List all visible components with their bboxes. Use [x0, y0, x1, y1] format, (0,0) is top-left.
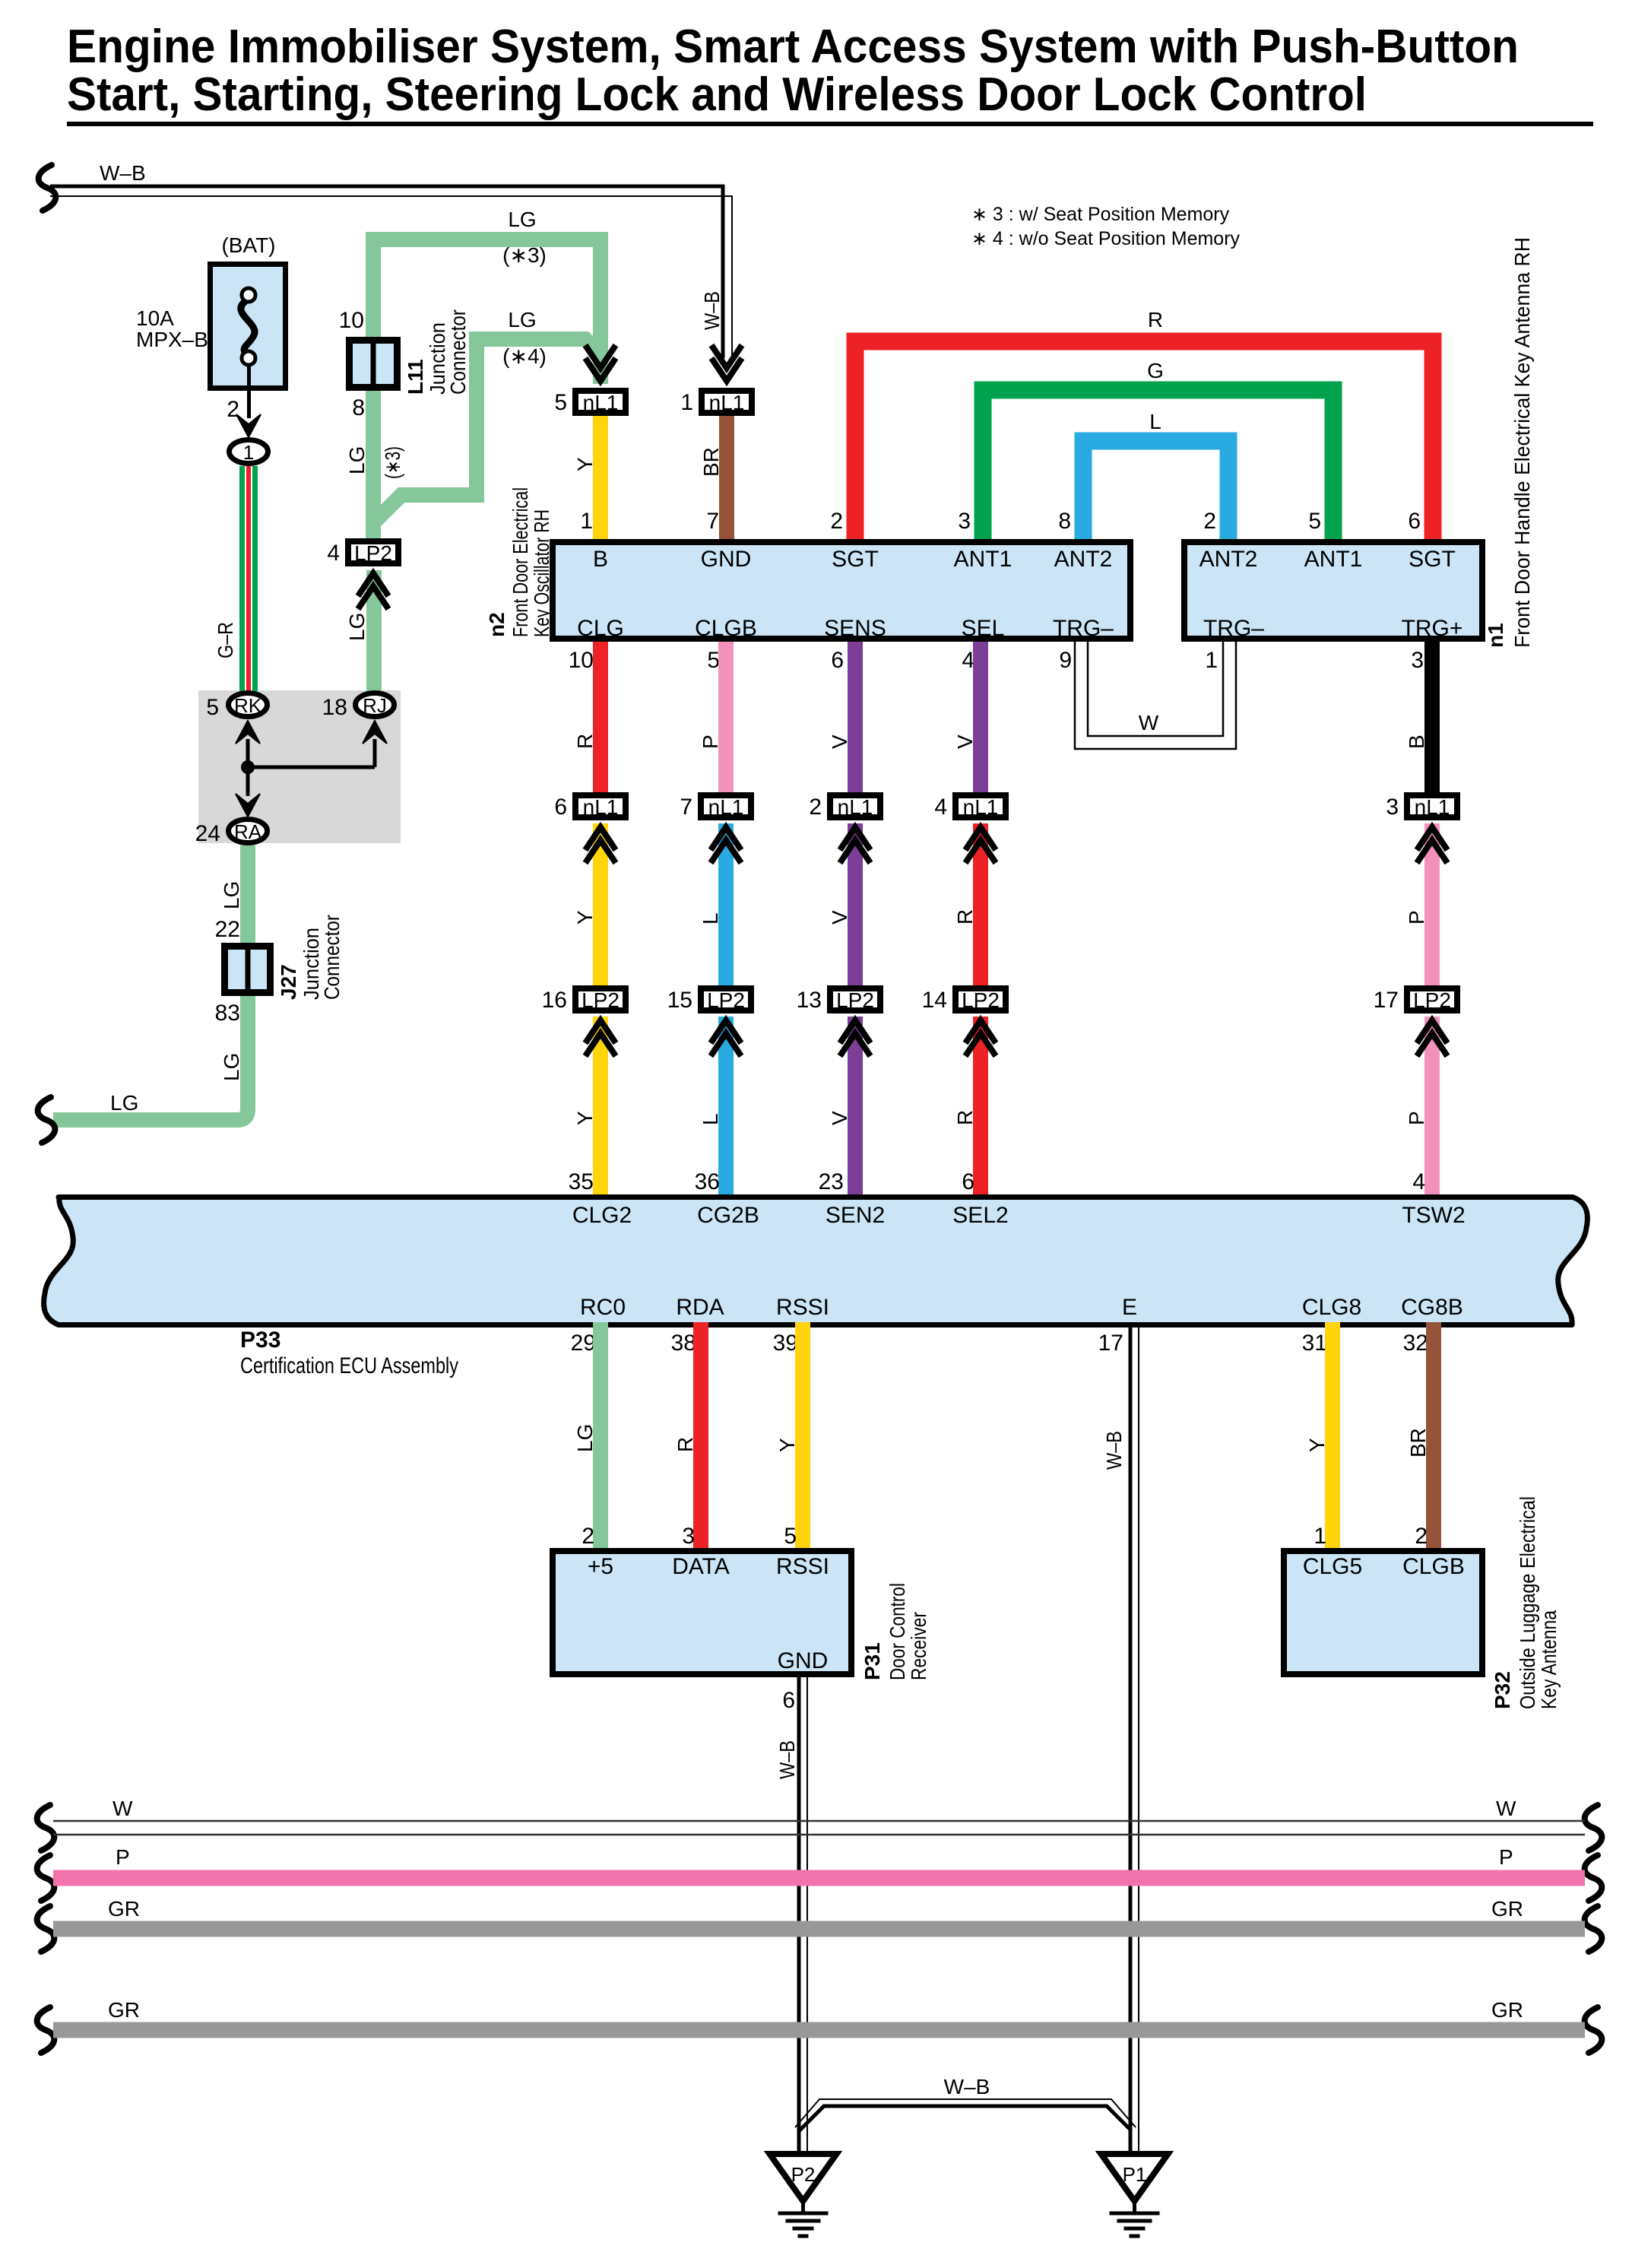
svg-text:ANT2: ANT2: [1199, 547, 1258, 572]
svg-text:P32: P32: [1491, 1671, 1514, 1709]
wire Y P33 RSSI to P31 RSSI: [775, 1322, 810, 1549]
connector 5 nL1: [554, 345, 626, 415]
note: *3 / *4 seat position memory legend: [971, 204, 1241, 249]
svg-text:5: 5: [1308, 509, 1321, 534]
wire G-R (green-red striped) from node 1 to RK: [214, 466, 258, 691]
svg-text:2: 2: [830, 509, 843, 534]
wire LG from J27 to left edge: [38, 996, 248, 1143]
svg-text:GND: GND: [778, 1648, 829, 1673]
svg-text:1: 1: [680, 390, 693, 415]
node 1 (splice): [230, 440, 268, 465]
svg-text:RC0: RC0: [580, 1295, 626, 1320]
svg-text:7: 7: [706, 509, 719, 534]
svg-text:Y: Y: [573, 910, 597, 925]
svg-text:10: 10: [339, 308, 364, 333]
svg-text:18: 18: [322, 695, 347, 720]
svg-text:1: 1: [1205, 648, 1218, 673]
bus wire W (top): [37, 1797, 1602, 1851]
svg-text:CLG: CLG: [577, 616, 624, 641]
svg-text:Y: Y: [573, 1111, 597, 1125]
wire W-B P33 E to ground P1: [1102, 1322, 1139, 2153]
svg-text:W–B: W–B: [1102, 1431, 1126, 1470]
svg-text:10: 10: [569, 648, 594, 673]
svg-text:LP2: LP2: [836, 988, 874, 1012]
svg-text:L: L: [699, 912, 722, 925]
svg-text:nL1: nL1: [1415, 795, 1450, 819]
wire L 15 LP2 to P33 pin 36: [699, 1017, 734, 1197]
pins 10 5 6 4 9 1 3 below n2/n1: [569, 648, 1424, 673]
svg-text:6: 6: [782, 1688, 795, 1713]
wire P n2 CLGB to 7 nL1: [699, 642, 734, 792]
svg-text:W–B: W–B: [775, 1740, 799, 1779]
svg-text:W–B: W–B: [944, 2075, 990, 2098]
bus wire GR (lower): [37, 1998, 1602, 2053]
svg-text:V: V: [953, 734, 977, 749]
wire R 4 nL1 to 14 LP2: [953, 823, 988, 985]
wire LG (*3) from junction connector L11 pin 10 loop to 5 nL1: [373, 208, 601, 541]
svg-text:V: V: [828, 734, 851, 749]
svg-text:LP2: LP2: [1413, 988, 1451, 1012]
svg-text:G–R: G–R: [214, 622, 237, 658]
block P33 Certification ECU Assembly: [44, 1197, 1588, 1379]
svg-text:8: 8: [1058, 509, 1071, 534]
connector 13 LP2: [797, 988, 880, 1056]
svg-text:SGT: SGT: [832, 547, 879, 572]
svg-text:CLG8: CLG8: [1302, 1295, 1361, 1320]
svg-text:∗ 4 : w/o Seat Position Memory: ∗ 4 : w/o Seat Position Memory: [971, 228, 1241, 249]
svg-text:ANT1: ANT1: [1304, 547, 1363, 572]
svg-text:Outside Luggage Electrical: Outside Luggage Electrical: [1516, 1496, 1539, 1709]
svg-text:32: 32: [1403, 1331, 1428, 1356]
connector 7 nL1: [680, 795, 751, 863]
wire R antenna loop n2 SGT to n1 SGT: [855, 308, 1433, 541]
pins 29 38 39 17 31 32 below P33: [571, 1331, 1428, 1356]
svg-text:RJ: RJ: [363, 694, 387, 717]
wire P 17 LP2 to P33 pin 4: [1405, 1017, 1440, 1197]
svg-text:W–B: W–B: [100, 161, 146, 185]
svg-text:LG: LG: [345, 613, 369, 641]
svg-text:38: 38: [671, 1331, 696, 1356]
wire W-B P31 GND to ground P2: [775, 1677, 807, 2153]
svg-text:Y: Y: [573, 457, 597, 471]
wire LG P33 RC0 to P31 +5: [573, 1322, 608, 1549]
svg-text:9: 9: [1059, 648, 1072, 673]
svg-text:Certification ECU Assembly: Certification ECU Assembly: [240, 1353, 458, 1378]
svg-text:6: 6: [1408, 509, 1421, 534]
wire P 3 nL1 to 17 LP2: [1405, 823, 1440, 985]
svg-text:R: R: [953, 909, 977, 925]
splice RJ (pin 18): [322, 693, 395, 721]
svg-text:14: 14: [922, 988, 947, 1013]
svg-text:Y: Y: [775, 1438, 799, 1452]
svg-text:LP2: LP2: [354, 541, 392, 565]
svg-text:4: 4: [327, 541, 340, 566]
svg-text:GR: GR: [108, 1998, 140, 2022]
svg-text:LG: LG: [508, 308, 536, 331]
svg-text:36: 36: [695, 1169, 720, 1194]
svg-text:nL1: nL1: [709, 391, 745, 414]
svg-text:nL1: nL1: [583, 391, 619, 414]
svg-text:LG: LG: [508, 208, 536, 231]
wire Y P33 CLG8 to P32 CLG5: [1305, 1322, 1340, 1549]
wire R 14 LP2 to P33 pin 6: [953, 1017, 988, 1197]
svg-text:Y: Y: [1305, 1438, 1329, 1452]
wire L 7 nL1 to 15 LP2: [699, 823, 734, 985]
wire B n1 TRG+ to 3 nL1: [1405, 642, 1440, 792]
svg-text:16: 16: [542, 988, 567, 1013]
svg-text:∗ 3 : w/ Seat Position Memory: ∗ 3 : w/ Seat Position Memory: [971, 204, 1230, 225]
svg-text:CLGB: CLGB: [695, 616, 757, 641]
connector 15 LP2: [667, 988, 751, 1056]
svg-text:RSSI: RSSI: [776, 1554, 829, 1579]
svg-text:W: W: [1496, 1797, 1516, 1820]
svg-text:LP2: LP2: [962, 988, 1000, 1012]
svg-text:39: 39: [773, 1331, 798, 1356]
svg-text:R: R: [673, 1437, 697, 1452]
svg-text:L: L: [1149, 410, 1161, 433]
svg-text:LG: LG: [345, 446, 369, 474]
svg-text:BR: BR: [1406, 1428, 1430, 1458]
svg-text:2: 2: [809, 795, 822, 820]
svg-text:LP2: LP2: [581, 988, 620, 1012]
svg-text:Engine Immobiliser System, Sma: Engine Immobiliser System, Smart Access …: [67, 21, 1519, 73]
wire BR from 1 nL1 to n2 pin 7: [719, 416, 734, 541]
svg-text:RA: RA: [234, 820, 262, 843]
svg-text:1: 1: [243, 441, 254, 464]
svg-text:R: R: [953, 1110, 977, 1125]
svg-text:CLG5: CLG5: [1303, 1554, 1362, 1579]
svg-text:P: P: [1405, 1111, 1428, 1125]
pins 35 36 23 6 4 above P33: [569, 1169, 1425, 1194]
svg-text:B: B: [593, 547, 608, 572]
svg-text:Key Antenna: Key Antenna: [1537, 1610, 1561, 1709]
wire V 13 LP2 to P33 pin 23: [828, 1017, 863, 1197]
connector 2 nL1: [809, 795, 880, 863]
svg-text:n2: n2: [485, 612, 509, 637]
svg-text:Front Door Electrical: Front Door Electrical: [509, 487, 532, 637]
connector 6 nL1: [554, 795, 626, 863]
svg-text:V: V: [828, 910, 851, 925]
svg-text:2: 2: [581, 1524, 594, 1549]
svg-text:LG: LG: [220, 1053, 243, 1081]
svg-text:3: 3: [1386, 795, 1399, 820]
title: diagram heading: [67, 21, 1593, 126]
svg-text:SEN2: SEN2: [826, 1203, 885, 1228]
pins 2 3 8 2 5 6 above blocks: [830, 509, 1421, 534]
svg-text:4: 4: [1412, 1169, 1425, 1194]
splice RK (pin 5): [206, 693, 267, 721]
connector 14 LP2: [922, 988, 1006, 1056]
svg-text:Door Control: Door Control: [886, 1583, 909, 1680]
svg-text:24: 24: [195, 821, 220, 846]
svg-text:BR: BR: [699, 447, 723, 477]
wire G antenna loop n2 ANT1 to n1 ANT1: [983, 359, 1333, 541]
connector 17 LP2: [1374, 988, 1457, 1056]
svg-text:4: 4: [962, 648, 974, 673]
svg-text:W: W: [112, 1797, 133, 1820]
label LG / (*3) beside L11 lower wire: [345, 446, 404, 479]
svg-text:P: P: [116, 1845, 130, 1869]
svg-text:LG: LG: [573, 1424, 597, 1452]
connector 16 LP2: [542, 988, 626, 1056]
svg-text:P33: P33: [240, 1327, 280, 1353]
wire LG from LP2-4 down to RJ: [345, 570, 382, 691]
svg-text:17: 17: [1374, 988, 1399, 1013]
svg-text:3: 3: [1411, 648, 1424, 673]
svg-text:1: 1: [580, 509, 593, 534]
wire Y 16 LP2 to P33 pin 35: [573, 1017, 608, 1197]
svg-text:(BAT): (BAT): [221, 233, 275, 257]
svg-text:CLG2: CLG2: [572, 1203, 632, 1228]
wire R n2 CLG to 6 nL1: [573, 642, 608, 792]
wire LG from RA to junction connector J27: [215, 845, 255, 943]
svg-text:GND: GND: [701, 547, 752, 572]
svg-text:W–B: W–B: [700, 291, 724, 330]
svg-text:P: P: [1499, 1845, 1513, 1869]
svg-text:Connector: Connector: [320, 915, 344, 1000]
svg-text:1: 1: [1314, 1524, 1326, 1549]
connector 3 nL1: [1386, 795, 1457, 863]
wire LG (*4) branch to 5 nL1: [373, 308, 601, 523]
svg-text:5: 5: [784, 1524, 797, 1549]
svg-text:SENS: SENS: [824, 616, 886, 641]
svg-text:RDA: RDA: [676, 1295, 724, 1320]
block P31 Door Control Receiver: [553, 1551, 930, 1680]
svg-text:J27: J27: [277, 964, 300, 1000]
svg-text:SGT: SGT: [1409, 547, 1456, 572]
svg-text:35: 35: [569, 1169, 594, 1194]
svg-text:Front Door Handle Electrical K: Front Door Handle Electrical Key Antenna…: [1510, 237, 1534, 648]
svg-text:6: 6: [831, 648, 844, 673]
wire BR P33 CG8B to P32 CLGB: [1406, 1322, 1441, 1549]
svg-text:V: V: [828, 1111, 851, 1125]
svg-text:8: 8: [352, 395, 365, 420]
svg-text:P: P: [1405, 910, 1428, 925]
connector 4 nL1: [934, 795, 1006, 863]
svg-text:CG2B: CG2B: [697, 1203, 759, 1228]
svg-text:23: 23: [819, 1169, 844, 1194]
svg-text:Key Oscillator RH: Key Oscillator RH: [530, 509, 553, 637]
wire W-B jumper linking ground drops: [795, 2075, 1136, 2130]
wire W loop n2 TRG- to n1 TRG-: [1075, 642, 1236, 749]
block n1 Front Door Handle Electrical Key Antenna RH: [1184, 237, 1534, 648]
svg-text:83: 83: [215, 1001, 240, 1026]
wire W-B from left to connector 1 nL1: [39, 161, 732, 358]
svg-text:DATA: DATA: [672, 1554, 730, 1579]
svg-text:L11: L11: [404, 359, 427, 395]
svg-text:nL1: nL1: [708, 795, 744, 819]
svg-text:6: 6: [554, 795, 567, 820]
svg-text:22: 22: [215, 917, 240, 942]
svg-text:E: E: [1122, 1295, 1137, 1320]
svg-text:GR: GR: [1491, 1998, 1523, 2022]
wire V n2 SENS to 2 nL1: [828, 642, 863, 792]
svg-text:31: 31: [1302, 1331, 1327, 1356]
svg-text:5: 5: [206, 695, 219, 720]
svg-text:GR: GR: [1491, 1897, 1523, 1921]
svg-text:29: 29: [571, 1331, 596, 1356]
svg-text:7: 7: [680, 795, 692, 820]
svg-text:G: G: [1147, 359, 1164, 382]
labels Y BR and pins 1 7: [573, 447, 723, 534]
svg-text:TSW2: TSW2: [1402, 1203, 1465, 1228]
svg-text:2: 2: [1203, 509, 1216, 534]
svg-text:13: 13: [797, 988, 822, 1013]
svg-text:CG8B: CG8B: [1401, 1295, 1463, 1320]
svg-text:5: 5: [554, 390, 567, 415]
svg-text:2: 2: [1415, 1524, 1428, 1549]
svg-text:RSSI: RSSI: [776, 1295, 829, 1320]
svg-text:RK: RK: [234, 694, 262, 717]
block P32 Outside Luggage Electrical Key Antenna: [1284, 1496, 1561, 1709]
wire V 2 nL1 to 13 LP2: [828, 823, 863, 985]
svg-text:GR: GR: [108, 1897, 140, 1921]
block n2 Front Door Electrical Key Oscillator RH: [485, 487, 1130, 641]
internal link RK-RJ-RA with junction dot: [236, 721, 387, 817]
svg-text:TRG–: TRG–: [1203, 616, 1264, 641]
svg-text:W: W: [1139, 711, 1159, 734]
svg-text:17: 17: [1098, 1331, 1123, 1356]
svg-text:(∗4): (∗4): [502, 344, 547, 368]
wire R P33 RDA to P31 DATA: [673, 1322, 708, 1549]
bus wire P (pink): [37, 1845, 1602, 1901]
svg-text:P1: P1: [1123, 2163, 1147, 2186]
svg-text:TRG–: TRG–: [1053, 616, 1114, 641]
svg-text:LG: LG: [110, 1091, 138, 1115]
svg-text:6: 6: [962, 1169, 974, 1194]
svg-text:5: 5: [707, 648, 720, 673]
svg-text:n1: n1: [1484, 623, 1507, 648]
wire Y from 5 nL1 to n2 pin 1: [593, 416, 608, 541]
ground P1: [1101, 2154, 1168, 2236]
svg-text:nL1: nL1: [583, 795, 619, 819]
svg-text:Start, Starting, Steering Lock: Start, Starting, Steering Lock and Wirel…: [67, 68, 1367, 121]
svg-text:LP2: LP2: [707, 988, 745, 1012]
svg-text:Connector: Connector: [446, 309, 470, 395]
svg-text:L: L: [699, 1113, 722, 1125]
svg-text:10A: 10A: [136, 306, 174, 330]
svg-text:Receiver: Receiver: [907, 1612, 930, 1680]
svg-text:15: 15: [667, 988, 692, 1013]
splice RA (pin 24): [195, 820, 268, 847]
wire fuse pin 2 to node 1: [227, 365, 261, 437]
shielded relay block (gray): [198, 690, 401, 843]
svg-text:SEL2: SEL2: [952, 1203, 1008, 1228]
svg-text:R: R: [573, 734, 597, 749]
ground P2: [770, 2154, 837, 2236]
svg-text:MPX–B: MPX–B: [136, 328, 208, 351]
svg-text:P31: P31: [860, 1642, 884, 1680]
svg-text:(∗3): (∗3): [502, 243, 547, 267]
svg-text:P: P: [699, 734, 722, 749]
wire V n2 SEL to 4 nL1: [953, 642, 988, 792]
svg-text:3: 3: [682, 1524, 695, 1549]
svg-text:+5: +5: [588, 1554, 613, 1579]
connector 1 nL1: [680, 345, 752, 415]
svg-text:nL1: nL1: [838, 795, 873, 819]
wire L antenna loop n2 ANT2 to n1 ANT2: [1083, 410, 1228, 541]
bus wire GR (upper): [37, 1897, 1602, 1952]
junction connector J27: [215, 915, 344, 1026]
svg-text:TRG+: TRG+: [1402, 616, 1463, 641]
svg-text:ANT1: ANT1: [954, 547, 1012, 572]
connector 4 LP2: [327, 541, 398, 609]
svg-text:nL1: nL1: [963, 795, 999, 819]
svg-text:B: B: [1405, 734, 1428, 749]
svg-text:ANT2: ANT2: [1054, 547, 1113, 572]
svg-text:LG: LG: [220, 881, 243, 909]
svg-text:4: 4: [934, 795, 947, 820]
junction connector L11: [339, 308, 470, 420]
svg-text:R: R: [1148, 308, 1163, 331]
svg-text:CLGB: CLGB: [1402, 1554, 1465, 1579]
svg-text:3: 3: [958, 509, 971, 534]
svg-text:(∗3): (∗3): [381, 446, 404, 479]
svg-text:P2: P2: [791, 2163, 816, 2186]
wire Y 6 nL1 to 16 LP2: [573, 823, 608, 985]
svg-text:2: 2: [227, 397, 239, 422]
svg-text:SEL: SEL: [962, 616, 1005, 641]
fuse 10A MPX-B (BAT): [136, 233, 286, 389]
